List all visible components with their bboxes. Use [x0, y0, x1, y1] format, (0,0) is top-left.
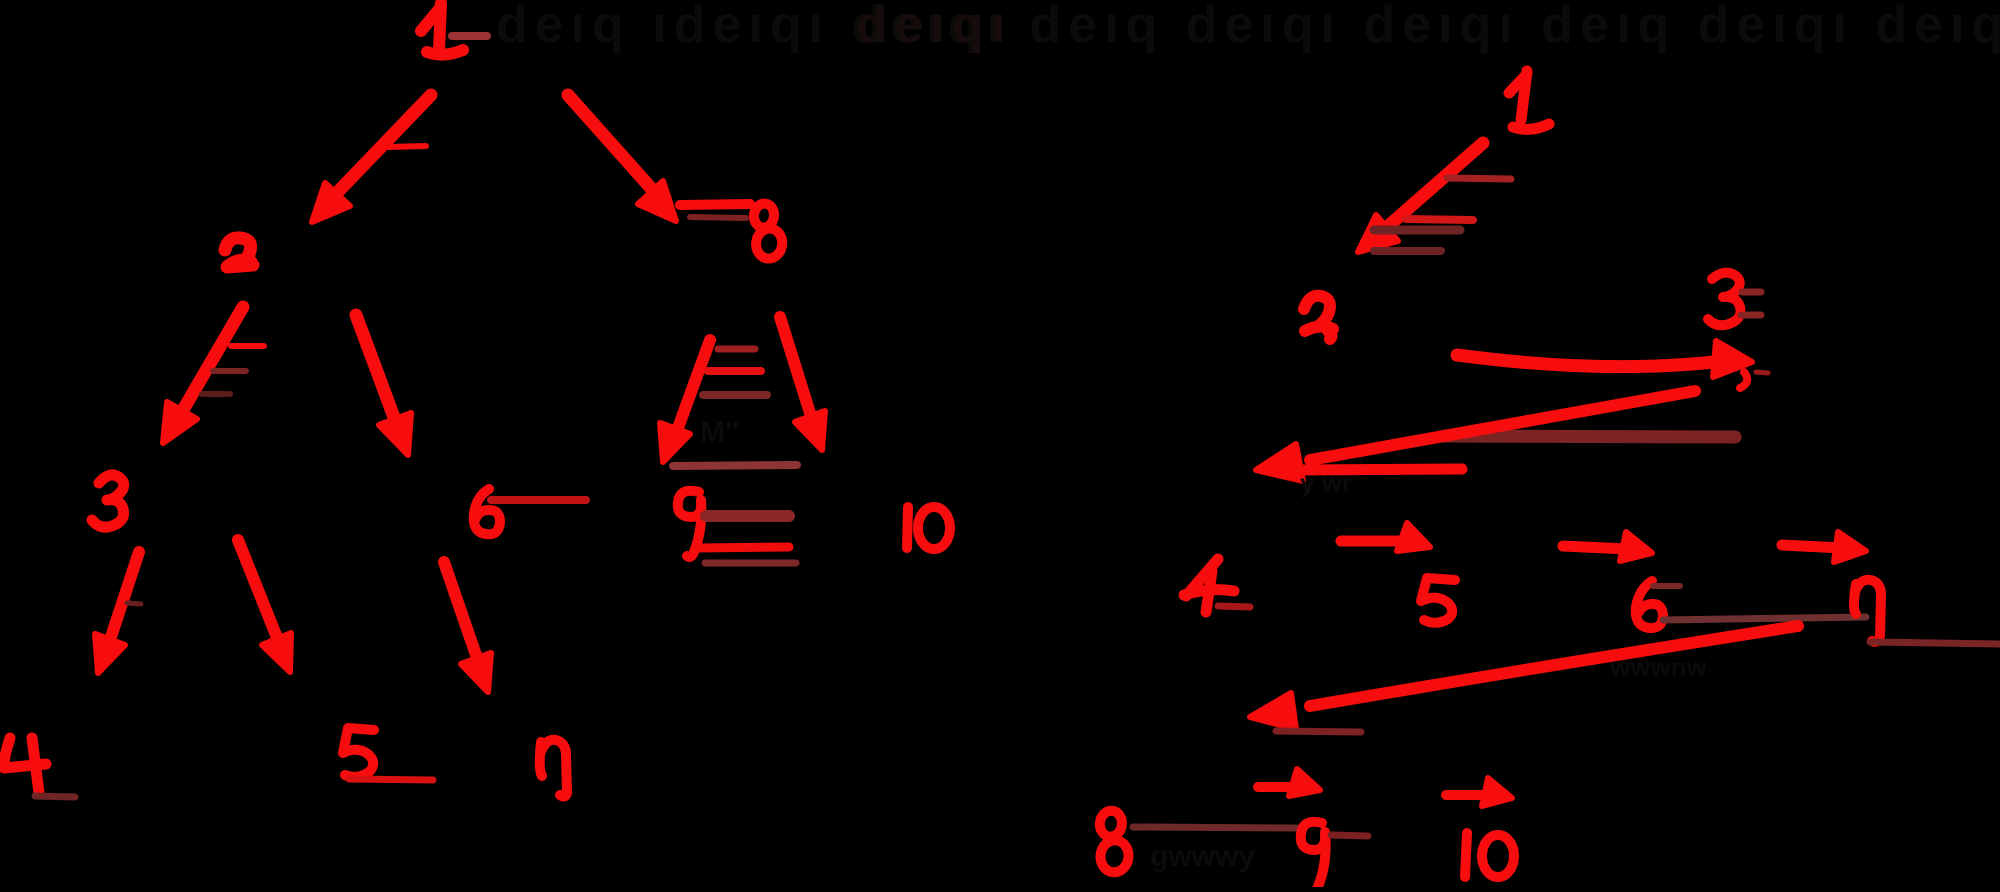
node 5 (left tree) [343, 728, 374, 777]
wire connector head to 8 [680, 204, 750, 205]
wire arrow 2 to 6 head [379, 413, 411, 455]
ladder dash 1 under node 8 [718, 346, 755, 353]
hook of arrow r2-r3 head [1740, 372, 1747, 388]
wire arrow 3 to 5 head [262, 633, 291, 672]
svg-text:deıqı: deıqı [856, 0, 1012, 54]
barb of arrow r3-r4 [1296, 469, 1462, 470]
wire small arrow to r6 head [1620, 532, 1652, 561]
wire arrow 8 to 9 head [660, 423, 690, 462]
node 4 (left tree) [4, 738, 46, 793]
svg-text:M″: M″ [700, 416, 739, 449]
dark dash right of node r6 [1653, 583, 1680, 589]
wire arrow 6 to 7 head [461, 653, 491, 692]
wire small arrow to r5 head [1397, 523, 1430, 551]
node 8 (left tree) [748, 202, 787, 260]
wire arrow 8 to 10 shaft [780, 317, 810, 413]
dark line under r7-r8 head [1276, 731, 1361, 732]
wire small arrow to r9 shaft [1258, 782, 1296, 792]
node 2 (right list) [1304, 296, 1333, 339]
wire small arrow to r7 shaft [1782, 545, 1842, 548]
wire arrow 8 to 10 head [795, 411, 825, 450]
underline of node 1 [452, 32, 487, 40]
dark underline below connector [690, 217, 746, 218]
dark tick right of r3 head [1756, 372, 1768, 373]
wire small arrow to r6 shaft [1563, 546, 1627, 549]
node 9 (right list) [1301, 822, 1326, 889]
node 3 (right list) [1708, 273, 1741, 326]
wire arrow 1 to 2 head [312, 183, 350, 222]
dark bar under arrow r2-r3 [1444, 436, 1735, 437]
ladder dash 3 under node 8 [703, 391, 767, 399]
node 6 (left tree) [474, 489, 500, 534]
node 2 (left tree) [225, 238, 253, 267]
wire small arrow to r10 shaft [1446, 790, 1488, 800]
dark dash 1 right of node r3 [1742, 289, 1761, 296]
ladder dash 1 right side [1447, 178, 1511, 179]
wire arrow 1 to 2 shaft [332, 95, 431, 198]
wire arrow 3 to 4 shaft [110, 552, 139, 640]
node 4 (right list) [1184, 559, 1234, 612]
node 1 (right list) [1509, 71, 1549, 129]
dark dash 2 under node 2 [202, 391, 230, 397]
wire from node 6 toward node 9 [491, 496, 586, 504]
wire small arrow to r9 head [1289, 769, 1320, 796]
svg-text:y wr: y wr [1300, 468, 1352, 498]
node 9 (left tree) [678, 491, 702, 557]
node 6 (right list) [1636, 581, 1663, 628]
ladder dash 3 right side [1374, 226, 1460, 235]
svg-text:wwwnw: wwwnw [1609, 652, 1708, 682]
tick on arrow 1-2 [388, 146, 426, 147]
wire arrow 8 to 9 shaft [678, 340, 710, 428]
dark dash 1 under node 2 [213, 368, 246, 374]
ladder dash 4 right side [1374, 247, 1441, 255]
wire small arrow to r10 head [1482, 778, 1512, 806]
wire arrow 3 to 4 head [95, 634, 125, 673]
node 5 (right list) [1421, 578, 1455, 623]
wire arrow r1 to r2 head [1358, 215, 1398, 252]
wire arrow r3 to r4 head [1256, 444, 1303, 481]
dark dash right of node r9 [1331, 835, 1368, 836]
node 3 (left tree) [92, 475, 124, 527]
thick dark line right of node 9 [706, 510, 789, 522]
dark underline of node 4 [35, 796, 75, 797]
dark wire node r8 to r9 [1133, 827, 1297, 828]
wire arrow 2 to 6 shaft [356, 315, 398, 428]
node 7 (right list) [1854, 580, 1881, 642]
node 7 (left tree) [540, 740, 567, 797]
wire arrow r7 to r8 head [1250, 693, 1296, 729]
wire arrow 3 to 5 shaft [238, 540, 278, 640]
dark wire under arrowheads 9-10 [673, 465, 797, 466]
wire arrow 1 to 8 head [638, 181, 676, 221]
dark dash 2 right of node r3 [1741, 312, 1761, 319]
dark underline of node r4 [1218, 606, 1250, 607]
wire small arrow to r7 head [1834, 532, 1866, 562]
dark wire node r6 to r7 [1663, 617, 1866, 620]
ladder dash 2 right side [1406, 219, 1473, 220]
wire arrow 6 to 7 shaft [444, 562, 476, 655]
underline of node 5 [349, 779, 433, 780]
wire arrow 2 to 3 head [163, 402, 197, 443]
node 8 (right list) [1095, 810, 1133, 874]
bright line right of node 9 [698, 547, 789, 548]
wire arrow r2 to r3 head [1713, 341, 1752, 377]
wire arrow r3 to r4 shaft [1310, 391, 1695, 460]
wire arrow r2 to r3 shaft [1457, 355, 1714, 367]
node 10 (right list) [1465, 833, 1514, 877]
dark tick near arrow 3-4 [127, 603, 141, 604]
svg-text:gwwwy: gwwwy [1150, 840, 1255, 873]
wire arrow r7 to r8 shaft [1310, 626, 1798, 706]
node 1 (left tree) [421, 3, 463, 55]
dark wire right of node r7 [1870, 642, 1999, 644]
node 10 (left tree) [907, 507, 950, 549]
wire arrow 2 to 3 shaft [183, 307, 243, 410]
ladder dash 2 under node 8 [708, 367, 761, 375]
wire arrow 1 to 8 shaft [568, 95, 658, 196]
wire arrow r1 to r2 shaft [1386, 143, 1483, 228]
svg-text:deıq ıdeıqı deıqı deıq deıqı d: deıq ıdeıqı deıqı deıq deıqı deıqı deıq … [496, 0, 2000, 54]
dark line below node 9 lines [705, 560, 796, 567]
tick on arrow 2-3 [231, 343, 264, 349]
wire small arrow to r5 shaft [1341, 536, 1402, 547]
